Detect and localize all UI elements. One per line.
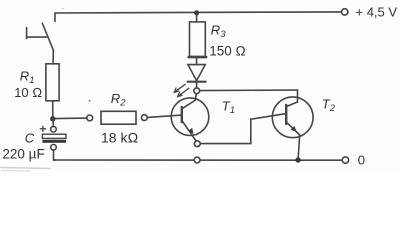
LED D1 wire to T1 collector — [196, 83, 198, 88]
LED D1 cathode bar — [188, 81, 206, 83]
terminal T1 collector — [194, 88, 200, 94]
terminal +4.5 V — [342, 9, 348, 15]
transistor T1 emitter arrow — [188, 128, 194, 134]
capacitor C negative plate — [42, 140, 66, 143]
wire node A to R2 — [56, 117, 87, 120]
wire capacitor to 0 rail — [54, 150, 57, 160]
wire R3 to LED — [196, 57, 198, 65]
wire node A to capacitor — [52, 119, 54, 127]
terminal 0 — [342, 157, 348, 163]
capacitor C positive plate — [42, 134, 66, 138]
transistor T2 emitter — [286, 122, 300, 135]
junction dot at R3 top — [194, 10, 199, 15]
capacitor C terminal top — [51, 126, 57, 132]
svg-text:C: C — [25, 130, 35, 145]
svg-text:+ 4,5 V: + 4,5 V — [356, 5, 398, 20]
svg-text:0: 0 — [358, 153, 365, 168]
transistor T2 emitter arrow — [291, 126, 297, 132]
terminal R2 left — [87, 115, 93, 121]
wire switch to R1 — [52, 50, 54, 64]
resistor R2 — [101, 111, 136, 124]
svg-text:18 kΩ: 18 kΩ — [101, 129, 138, 145]
terminal R2 right — [141, 115, 147, 121]
wire T1 emitter to T2 base — [200, 114, 286, 144]
capacitor C terminal bottom — [51, 145, 57, 151]
capacitor C plus sign — [40, 126, 45, 131]
transistor T1 envelope — [171, 98, 209, 136]
switch S1 blade — [42, 23, 53, 51]
LED D1 triangle — [188, 65, 205, 81]
wire R1 to node A — [52, 101, 54, 119]
svg-text:150 Ω: 150 Ω — [209, 44, 246, 59]
junction dot T2 emitter on 0 rail — [295, 157, 300, 162]
wire R2 to T1 base — [147, 115, 182, 117]
wire +4.5V top rail — [55, 12, 341, 22]
stray dot left of R2 label — [89, 100, 91, 102]
terminal on 0 rail below T1 — [194, 157, 200, 163]
resistor R3 — [190, 22, 206, 57]
LED D1 light arrow lower — [178, 88, 189, 96]
LED D1 light arrow upper — [174, 84, 185, 92]
switch S1 actuator — [27, 28, 47, 39]
transistor T1 collector — [182, 94, 197, 109]
transistor T2 collector — [286, 102, 297, 107]
svg-text:10 Ω: 10 Ω — [14, 85, 42, 100]
wire R3 top — [196, 13, 198, 22]
wire T2 emitter to 0 rail — [298, 135, 300, 158]
terminal T1 emitter — [194, 141, 200, 147]
wire 0V bottom rail — [54, 159, 343, 161]
wire T1 collector to T2 collector — [200, 90, 298, 102]
transistor T2 envelope — [272, 97, 313, 138]
resistor R1 — [46, 64, 59, 101]
transistor T1 base bar — [181, 107, 183, 122]
node A junction dot — [50, 116, 55, 121]
transistor T2 base bar — [285, 105, 287, 124]
transistor T1 emitter — [182, 120, 196, 141]
svg-text:220 µF: 220 µF — [2, 146, 44, 161]
